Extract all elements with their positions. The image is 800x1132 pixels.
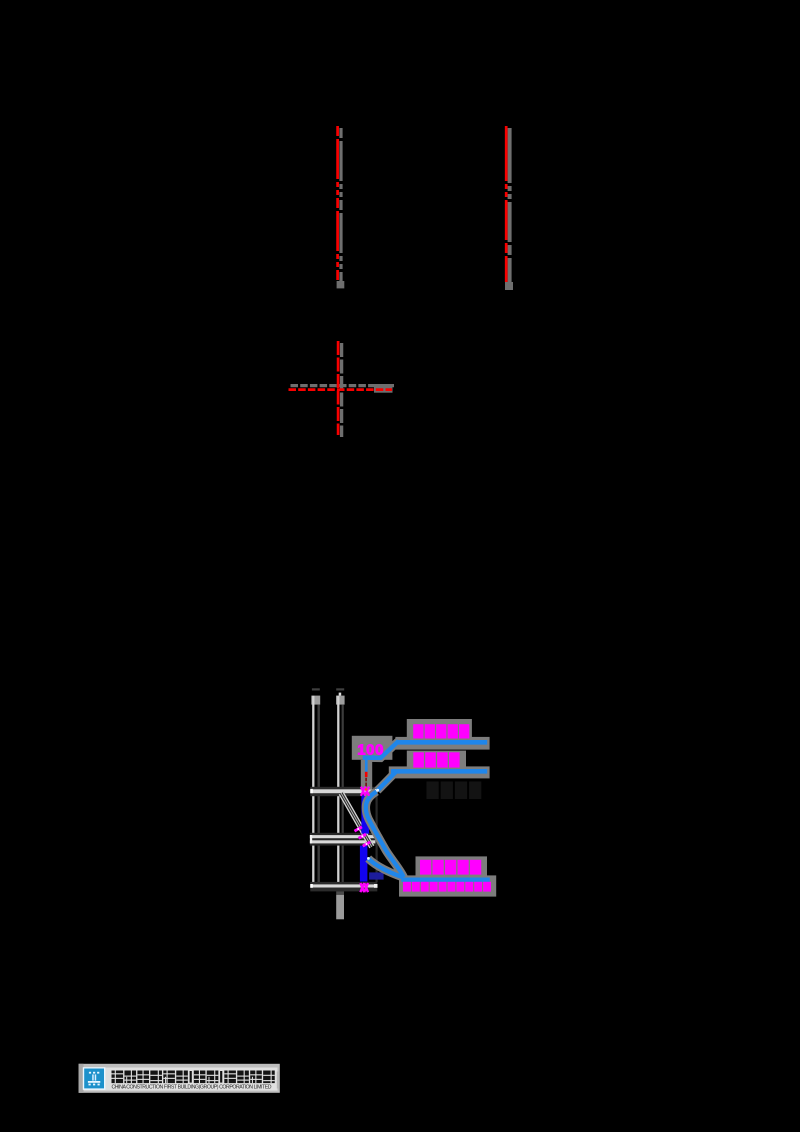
gridline A red centerline (336, 126, 339, 281)
halo leader4 (368, 859, 403, 878)
ledger band2 left tick (310, 835, 312, 843)
diagonal tie strut dark core (341, 793, 372, 847)
underline2 blue (391, 769, 487, 774)
underline3 blue (401, 878, 490, 882)
ledger band1 light line (310, 789, 377, 793)
logo emblem white marks (89, 1072, 91, 1074)
crosshair horizontal red centerline (289, 388, 393, 391)
post1 dark inner line (318, 705, 320, 885)
crosshair vertical red centerline (337, 341, 340, 435)
leader4 white dot (367, 857, 370, 860)
halo underline2 (389, 766, 490, 778)
halo label2 text (407, 751, 466, 771)
red stub dark dashes (365, 778, 367, 782)
logo white glow (83, 1067, 106, 1090)
leader1 arrow (362, 755, 374, 760)
label1 text (5 chars) (413, 724, 423, 738)
halo label 100 (352, 736, 393, 760)
navy plate rect (369, 872, 384, 879)
svg-text:100: 100 (357, 741, 384, 758)
ledger band3 right tick (374, 884, 378, 888)
logo strip left dark edge (79, 1064, 84, 1093)
post2 top tick (336, 688, 344, 690)
post1 light standard line (312, 696, 314, 888)
magenta ticks on strut (354, 827, 361, 831)
post2 white stub (339, 693, 342, 696)
gridline shadow A (gray) (339, 128, 342, 285)
red stub bright (365, 772, 368, 777)
leader2 white dot (376, 789, 379, 792)
logo strip right gray mark (277, 1072, 280, 1089)
crosshair shadow vertical (340, 343, 343, 437)
diagonal tie strut white edge 1 (339, 794, 370, 848)
halo column around red stub/vertical (361, 760, 372, 789)
halo label1 text (407, 719, 472, 741)
ghost dark text (427, 782, 439, 800)
logo chinese text mosaic (112, 1071, 124, 1084)
leader4 blue (368, 859, 403, 878)
dim leader vertical blue (365, 756, 368, 772)
gridline shadow B (gray) (508, 128, 512, 286)
blue embed bar segment1 (361, 795, 369, 833)
ledger band1 right white tick (374, 789, 378, 793)
post1 top tick (312, 688, 320, 690)
underline1 blue (398, 740, 488, 745)
post1 cap (311, 696, 320, 705)
post2 cap (336, 696, 345, 705)
ledger band3 light line (310, 884, 377, 887)
ledger band2 light line upper (310, 835, 376, 838)
diagonal tie strut white edge 2 (343, 792, 374, 846)
ledger band3 left tick (310, 884, 313, 888)
label2 text (4 chars) (413, 752, 424, 767)
ledger band3 dark edge (310, 882, 377, 892)
leader2 blue (377, 771, 396, 790)
ledger band1 left white tick (310, 789, 313, 793)
halo bottom label line1 (416, 856, 488, 877)
logo blue square (84, 1069, 104, 1089)
leader3 blue spline (366, 792, 404, 878)
svg-text:CHINA CONSTRUCTION FIRST BUILD: CHINA CONSTRUCTION FIRST BUILDING(GROUP)… (112, 1085, 272, 1091)
ledger band1 dark edge (310, 787, 377, 796)
post2 light standard line (337, 696, 339, 888)
halo leader2 (377, 771, 396, 790)
halo leader3 spline (366, 792, 404, 878)
magenta X marks bar bottom (360, 883, 364, 892)
crosshair shadow horizontal (291, 384, 395, 387)
lower gray hanger bar (336, 891, 344, 894)
diagonal tie strut mid line (341, 793, 372, 847)
halo leader1 (363, 741, 399, 758)
magenta X marks bar top (361, 787, 365, 796)
right frame dark vertical (376, 796, 378, 882)
logo strip inner light (84, 1068, 278, 1091)
post2 dark inner line (342, 705, 344, 885)
leader1 blue polyline (363, 741, 399, 758)
logo strip base (79, 1064, 280, 1093)
bottom label line1 (5 chars) (420, 860, 431, 875)
halo bottom underline + line2 (399, 875, 496, 896)
ledger band2 dark edge (310, 833, 376, 846)
blue embed bar segment2 (360, 846, 368, 882)
halo underline1 (395, 737, 489, 750)
gridline B red centerline (505, 126, 508, 282)
bottom label line2 (10 chars) (403, 882, 411, 892)
ledger band2 light line lower (310, 840, 376, 843)
